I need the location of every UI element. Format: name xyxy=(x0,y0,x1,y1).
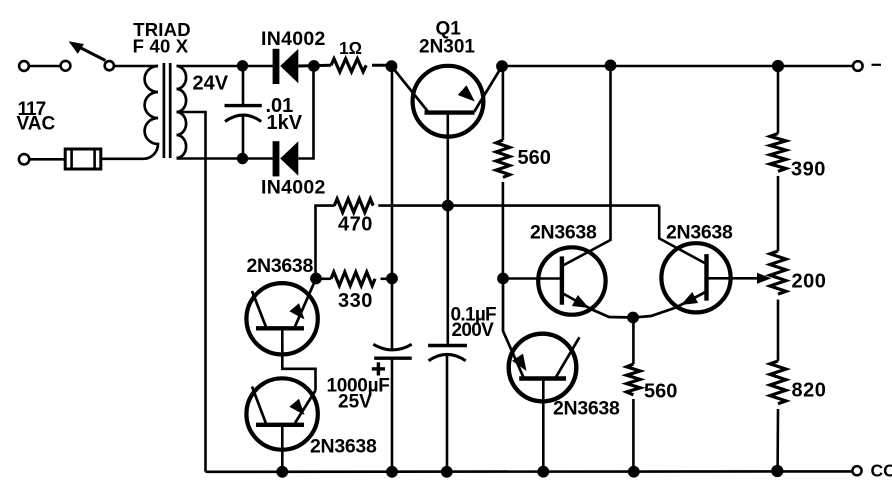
node rail 560 xyxy=(605,60,617,72)
transistor Q3 2N3638 circle xyxy=(246,378,317,449)
svg-text:200V: 200V xyxy=(452,320,495,341)
transistor Q4 emitter arrow xyxy=(572,295,589,308)
transistor Q1 emitter lead xyxy=(474,66,502,112)
terminal input top xyxy=(19,61,29,71)
svg-text:470: 470 xyxy=(338,214,373,236)
transistor Q6 base bar xyxy=(519,376,566,380)
svg-text:25V: 25V xyxy=(338,392,372,413)
transistor Q5 emitter lead xyxy=(634,292,707,318)
node rail 390 xyxy=(772,60,784,72)
transistor Q6 emitter arrow xyxy=(512,354,526,371)
wire Q1 base row xyxy=(378,204,659,207)
svg-text:2N3638: 2N3638 xyxy=(247,255,314,277)
node common emitters xyxy=(627,312,639,324)
switch S1 blade xyxy=(78,47,106,61)
wire xyxy=(502,182,505,279)
svg-text:560: 560 xyxy=(518,147,551,169)
svg-text:330: 330 xyxy=(338,290,373,312)
node rectifier output xyxy=(308,60,320,72)
node Q1 collector xyxy=(386,60,398,72)
wire secondary bottom xyxy=(177,157,273,160)
wire xyxy=(776,409,779,471)
wire rail to Q4 collector xyxy=(562,66,611,266)
transistor Q5 base bar xyxy=(704,254,708,301)
node rail 820 xyxy=(771,465,783,477)
transistor Q3 base bar xyxy=(256,423,304,427)
resistor R8 820 xyxy=(770,361,786,404)
transformer T1 core xyxy=(163,63,166,158)
terminal input bottom xyxy=(19,154,29,164)
svg-text:IN4002: IN4002 xyxy=(261,177,326,199)
potentiometer R7 200 xyxy=(770,251,786,294)
transistor Q1 base bar xyxy=(425,110,475,114)
svg-text:2N3638: 2N3638 xyxy=(553,398,620,420)
svg-text:VAC: VAC xyxy=(17,114,56,135)
label plus xyxy=(372,367,385,370)
wire Q3 base leg xyxy=(281,425,284,472)
wire xyxy=(242,116,245,159)
wire xyxy=(777,300,780,362)
svg-text:24V: 24V xyxy=(193,73,229,95)
terminal switch contact xyxy=(61,61,71,71)
wire Q2 base to Q3 xyxy=(282,328,315,390)
label minus xyxy=(872,64,882,66)
transistor Q2 emitter arrow xyxy=(289,303,304,319)
resistor R1 1 ohm xyxy=(331,59,366,72)
node Q1 base junction xyxy=(442,200,454,212)
wire Q4 base xyxy=(503,277,562,280)
node rail Q6 base xyxy=(537,466,549,478)
svg-text:2N301: 2N301 xyxy=(419,37,475,58)
switch S1 arrow xyxy=(69,41,84,54)
svg-text:2N3638: 2N3638 xyxy=(666,222,733,244)
wire xyxy=(503,279,524,379)
fuse F1 xyxy=(65,149,101,169)
svg-text:IN4002: IN4002 xyxy=(261,28,326,50)
wire xyxy=(446,355,449,472)
wire xyxy=(632,318,635,365)
wire xyxy=(632,399,635,472)
transistor Q5 emitter arrow xyxy=(681,292,698,305)
transistor Q3 emitter arrow xyxy=(289,399,304,415)
wire xyxy=(777,66,780,134)
wire xyxy=(316,277,331,280)
resistor R5 560 xyxy=(627,364,641,395)
svg-text:560: 560 xyxy=(644,381,677,403)
node 330 right xyxy=(386,273,398,285)
transistor Q4 emitter lead xyxy=(562,293,633,318)
wire xyxy=(101,158,144,161)
capacitor C3 0.1uF plate top xyxy=(428,344,467,347)
node reference xyxy=(497,273,509,285)
diode D1 1N4002 xyxy=(273,49,280,84)
wire Q6 base leg xyxy=(542,379,545,472)
transistor Q1 collector lead xyxy=(392,66,428,111)
wire diode riser xyxy=(298,66,313,159)
wire xyxy=(242,66,245,106)
transistor Q6 collector lead xyxy=(556,337,579,377)
terminal common xyxy=(852,466,861,475)
wire xyxy=(114,65,158,68)
wire center tap xyxy=(177,112,206,472)
resistor R6 390 xyxy=(770,134,786,172)
transistor Q2 collector lead xyxy=(252,291,266,327)
resistor R2 470 xyxy=(334,199,373,213)
wire xyxy=(502,66,505,140)
node rail 1000uF xyxy=(386,466,398,478)
wire positive rail xyxy=(502,65,853,67)
svg-text:1Ω: 1Ω xyxy=(339,38,362,58)
transistor Q3 emitter lead xyxy=(295,391,316,424)
transformer T1 primary winding xyxy=(144,66,159,159)
wire secondary top xyxy=(177,65,273,68)
transistor Q1 2N301 circle xyxy=(413,66,484,137)
terminal output minus xyxy=(853,61,863,71)
capacitor C3 0.1uF plate bottom xyxy=(429,354,466,360)
svg-text:2N3638: 2N3638 xyxy=(530,222,597,244)
transistor Q2 2N3638 circle xyxy=(246,283,317,354)
node rail 560 xyxy=(628,466,640,478)
transistor Q6 2N3638 circle xyxy=(509,334,577,402)
resistor R4 330 xyxy=(331,272,375,286)
capacitor C1 .01 1kV xyxy=(225,104,262,107)
transistor Q4 2N3638 circle xyxy=(538,247,605,314)
switch S1 pivot xyxy=(105,61,114,70)
svg-text:CO: CO xyxy=(871,461,892,481)
node secondary top junction xyxy=(237,60,248,71)
node rail Q3 base xyxy=(276,466,288,478)
capacitor C2 1000uF plate bottom xyxy=(374,357,412,360)
resistor R3 560 xyxy=(496,140,510,177)
transistor Q2 base bar xyxy=(256,326,304,330)
wire xyxy=(29,65,60,68)
node Q1 emitter xyxy=(496,60,508,72)
transistor Q2 emitter lead xyxy=(295,279,316,327)
wire xyxy=(391,66,394,350)
node rail 0.1uF xyxy=(441,466,453,478)
transformer T1 secondary winding xyxy=(177,66,187,158)
svg-text:2N3638: 2N3638 xyxy=(310,436,377,458)
svg-text:1kV: 1kV xyxy=(267,112,303,134)
svg-text:F 40 X: F 40 X xyxy=(133,36,189,57)
diode D2 1N4002 xyxy=(273,141,280,176)
wire xyxy=(391,358,394,472)
transistor Q5 2N3638 circle xyxy=(661,243,730,312)
svg-text:200: 200 xyxy=(792,271,827,293)
wire Q5 collector riser xyxy=(659,206,706,264)
transistor Q3 collector lead xyxy=(252,387,266,424)
node secondary bottom junction xyxy=(237,153,248,164)
wire common rail xyxy=(206,470,853,473)
transistor Q1 emitter arrow xyxy=(458,85,475,101)
wire xyxy=(316,206,335,278)
svg-text:390: 390 xyxy=(791,159,826,181)
capacitor C2 1000uF plate top xyxy=(373,344,411,350)
wire xyxy=(372,64,392,67)
wire xyxy=(777,176,780,251)
wire xyxy=(446,113,449,346)
node 330 left xyxy=(310,273,322,285)
wire Q5 base to pot xyxy=(707,277,760,280)
potentiometer wiper arrow xyxy=(757,273,772,284)
wire xyxy=(298,64,331,68)
svg-text:820: 820 xyxy=(792,380,827,402)
transistor Q4 base bar xyxy=(560,256,564,304)
wire xyxy=(30,158,66,161)
